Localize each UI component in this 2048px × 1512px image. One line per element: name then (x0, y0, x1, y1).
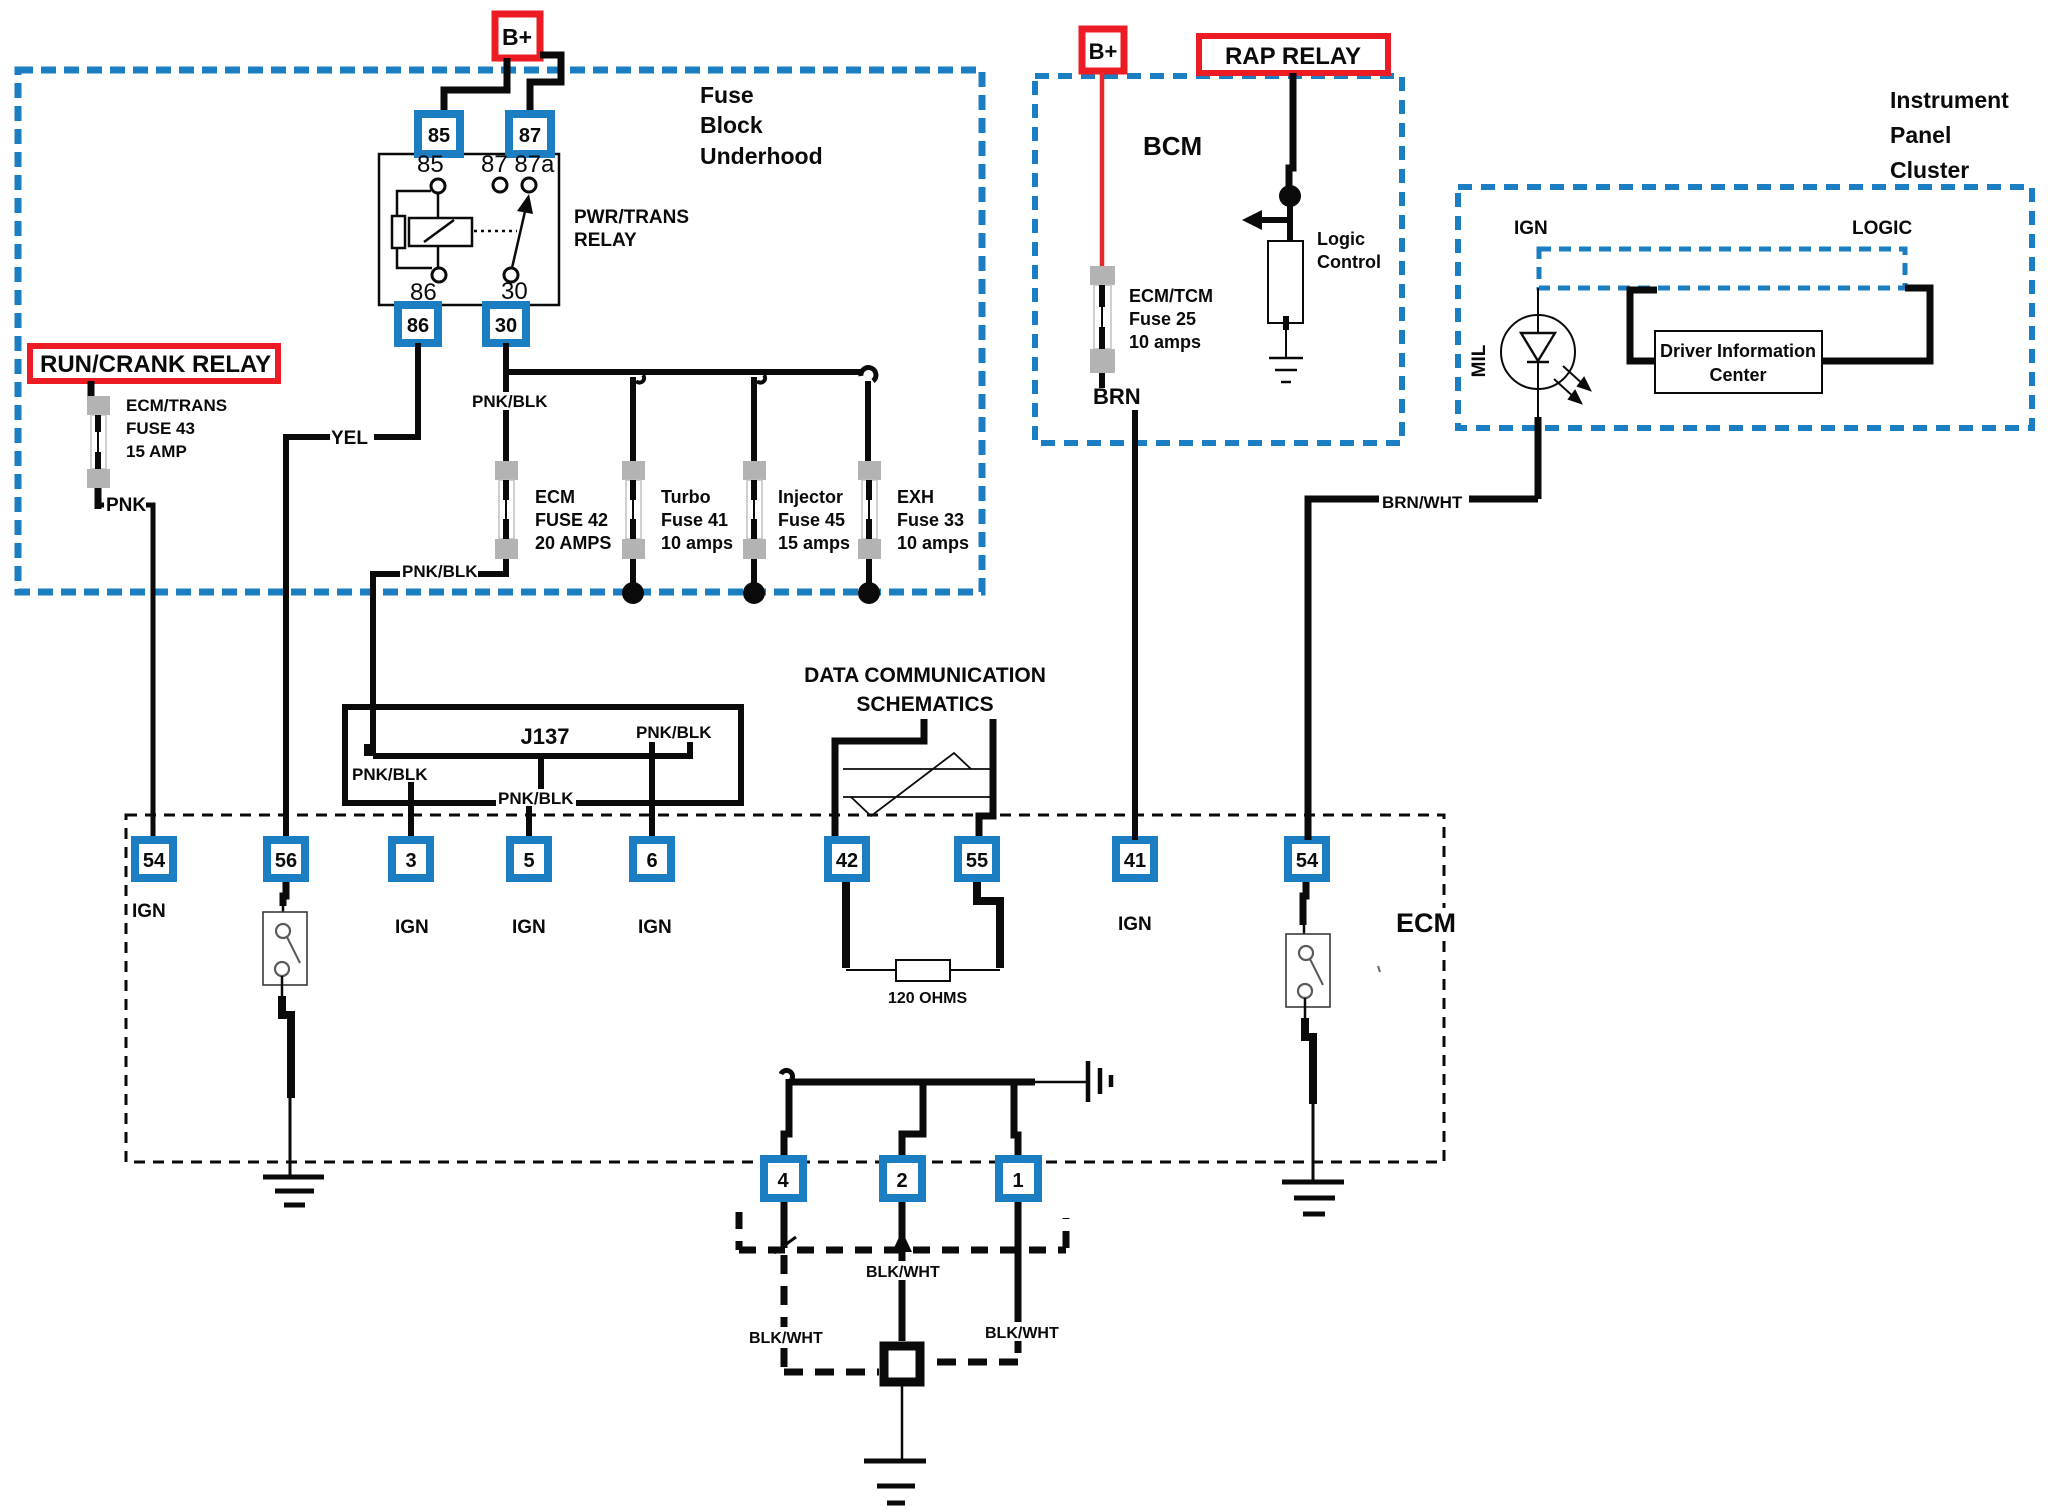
wire pin 2 BLK/WHT (899, 1202, 906, 1341)
svg-text:PNK: PNK (106, 495, 146, 516)
svg-text:IGN: IGN (132, 901, 166, 922)
svg-text:BLK/WHT: BLK/WHT (985, 1325, 1059, 1342)
svg-text:Driver Information: Driver Information (1660, 341, 1816, 361)
wire splice to ground (901, 1386, 904, 1461)
switch S1 (under pin 56) (263, 912, 307, 985)
logic control block (1268, 241, 1303, 323)
svg-text:Fuse 41: Fuse 41 (661, 510, 728, 530)
svg-text:54: 54 (143, 850, 166, 872)
svg-text:B+: B+ (502, 24, 532, 50)
wire BRN/WHT to ECM pin 54 right (1308, 499, 1538, 840)
svg-text:IGN: IGN (638, 917, 672, 938)
wire YEL pin86 to ECM pin 56 (286, 343, 418, 836)
svg-text:2: 2 (896, 1170, 907, 1192)
wire PNK/BLK from pin 30 to fuse F42 (503, 343, 509, 463)
junction dot F45 (743, 582, 765, 604)
ground (below switch S2) (1282, 1182, 1344, 1214)
svg-text:FUSE 42: FUSE 42 (535, 510, 608, 530)
stray tick mark (1378, 966, 1380, 972)
svg-text:5: 5 (523, 850, 534, 872)
pin 56 (267, 840, 305, 878)
svg-text:Fuse: Fuse (700, 82, 754, 108)
svg-text:EXH: EXH (897, 487, 934, 507)
wire J137 to ECM pin 6 (649, 742, 655, 836)
svg-text:YEL: YEL (331, 428, 368, 449)
wire F33 to junction (866, 559, 872, 585)
fuse F43 label (126, 396, 227, 461)
svg-text:Injector: Injector (778, 487, 843, 507)
svg-text:ECM/TRANS: ECM/TRANS (126, 396, 227, 415)
svg-text:86: 86 (407, 315, 429, 337)
svg-text:Center: Center (1709, 365, 1766, 385)
svg-text:41: 41 (1124, 850, 1146, 872)
svg-text:SCHEMATICS: SCHEMATICS (856, 693, 993, 716)
svg-text:4: 4 (777, 1170, 789, 1192)
svg-text:BLK/WHT: BLK/WHT (866, 1264, 940, 1281)
svg-text:ECM/TCM: ECM/TCM (1129, 286, 1213, 306)
wire branch to fuse F41 (630, 377, 636, 463)
splice box G (ground splice) (884, 1346, 920, 1382)
svg-text:Fuse 33: Fuse 33 (897, 510, 964, 530)
svg-text:54: 54 (1296, 850, 1319, 872)
svg-text:MIL: MIL (1469, 344, 1490, 377)
wire YEL label (330, 424, 374, 446)
svg-text:55: 55 (966, 850, 988, 872)
svg-text:42: 42 (836, 850, 858, 872)
DATA COMMUNICATION SCHEMATICS label (804, 664, 1046, 716)
BLK/WHT label (pin 2) (864, 1261, 942, 1281)
svg-text:IGN: IGN (1514, 218, 1548, 239)
Fuse Block Underhood label (700, 82, 823, 169)
svg-text:PNK/BLK: PNK/BLK (472, 392, 548, 411)
BLK/WHT label (pin 4) (747, 1327, 825, 1346)
fuse F33 EXH 10A (858, 461, 881, 559)
RAP RELAY node (1199, 36, 1388, 73)
wire B+ to pin 87 (530, 55, 561, 114)
wire switch S2 to ground (1304, 998, 1307, 1020)
svg-text:Logic: Logic (1317, 229, 1365, 249)
wire MIL to BRN/WHT (1537, 389, 1539, 419)
pin 41 (1116, 840, 1154, 878)
relay internal pin labels (410, 151, 555, 306)
svg-text:Instrument: Instrument (1890, 87, 2009, 113)
svg-text:87 87a: 87 87a (481, 151, 555, 178)
wire B+ to pin 85 (444, 58, 507, 114)
relay armature dotted link (474, 230, 517, 233)
svg-text:RUN/CRANK RELAY: RUN/CRANK RELAY (40, 351, 271, 378)
fuse F42 label (535, 487, 611, 553)
pin 1 (999, 1159, 1038, 1198)
wire data bus to ECM pin 42 (835, 719, 924, 836)
wire PNK label (104, 494, 146, 513)
pin 5 (510, 840, 548, 878)
pin 55 (958, 840, 996, 878)
svg-text:BLK/WHT: BLK/WHT (749, 1330, 823, 1347)
svg-text:ECM: ECM (1396, 908, 1456, 938)
wire PNK/BLK label (J137 bottom) (496, 789, 576, 806)
pin 87 (509, 114, 551, 154)
wire pin 42 to terminating resistor (842, 882, 850, 968)
svg-text:B+: B+ (1089, 39, 1118, 64)
wire B+ to fuse F25 (red) (1100, 71, 1105, 268)
switch S2 lead from pin 54 right (1303, 882, 1306, 925)
pin 86 (398, 305, 438, 343)
wire ground bus to pin 2 (902, 1079, 923, 1159)
wire DIC left to logic bus (1630, 290, 1657, 361)
node B+ (BCM feed) (1082, 29, 1124, 71)
svg-text:ECM: ECM (535, 487, 575, 507)
svg-text:LOGIC: LOGIC (1852, 218, 1912, 239)
svg-text:J137: J137 (521, 724, 570, 749)
svg-text:10 amps: 10 amps (1129, 332, 1201, 352)
RUN/CRANK RELAY node (30, 346, 278, 381)
ECM label (1390, 908, 1462, 938)
lead to chassis ground (right) (1035, 1081, 1086, 1084)
svg-text:IGN: IGN (1118, 914, 1152, 935)
fuse F41 label (661, 487, 733, 553)
arrow output (to left) (1258, 217, 1290, 223)
Instrument Panel Cluster label (1890, 87, 2009, 183)
wire branch to fuse F33 (865, 381, 871, 463)
pin 30 (486, 305, 526, 343)
pin 54 (left) (135, 840, 173, 878)
pin 4 (764, 1159, 803, 1198)
svg-text:6: 6 (646, 850, 657, 872)
wire PNK/BLK from F42 down-left toward J137 (373, 559, 506, 756)
svg-text:PNK/BLK: PNK/BLK (402, 562, 478, 581)
wire pin 55 to terminating resistor (977, 882, 1000, 968)
junction dot F33 (858, 582, 880, 604)
BRN/WHT label (1379, 490, 1469, 512)
fuse F33 label (897, 487, 969, 553)
splice block J137 box (345, 707, 741, 803)
fuse F42 ECM 20A (495, 461, 518, 559)
svg-text:85: 85 (417, 151, 444, 178)
pin 85 (418, 114, 460, 154)
fuse F43 ECM/TRANS 15A (87, 396, 110, 509)
pin 3 (392, 840, 430, 878)
svg-text:10 amps: 10 amps (897, 533, 969, 553)
svg-text:IGN: IGN (512, 917, 546, 938)
fuse F25 ECM/TCM 10A (1090, 266, 1115, 388)
svg-text:56: 56 (275, 850, 297, 872)
svg-text:Panel: Panel (1890, 122, 1951, 148)
wire PNK/BLK label (below F42) (400, 560, 478, 580)
wire data bus to ECM pin 55 (979, 719, 993, 836)
wire J137 to ECM pin 5 (538, 756, 544, 791)
relay K1 PWR/TRANS outline (379, 154, 559, 305)
svg-text:3: 3 (405, 850, 416, 872)
svg-text:DATA COMMUNICATION: DATA COMMUNICATION (804, 664, 1046, 687)
twisted pair symbol (843, 753, 990, 816)
fuse F25 label (1129, 286, 1213, 352)
svg-text:Underhood: Underhood (700, 143, 823, 169)
svg-text:Fuse 45: Fuse 45 (778, 510, 845, 530)
switch S1 lead from pin 56 (283, 882, 286, 906)
chassis ground (rotated) (1088, 1061, 1111, 1102)
ground (logic control) (1269, 358, 1303, 382)
ECM enclosure (dashed) (126, 815, 1444, 1162)
Instrument Panel Cluster enclosure (dashed) (1458, 187, 2032, 428)
wire junction to logic control (1287, 196, 1293, 241)
svg-text:85: 85 (428, 125, 450, 147)
wire F41 to junction (630, 559, 636, 585)
wire RUN/CRANK relay to fuse F43 (88, 381, 95, 398)
ground G101 (bottom) (864, 1461, 926, 1503)
Logic Control label (1317, 229, 1381, 272)
J137 internal bus wire (367, 742, 690, 756)
svg-text:Block: Block (700, 112, 763, 138)
MIL indicator LED (1501, 315, 1575, 389)
svg-text:PNK/BLK: PNK/BLK (352, 765, 428, 784)
junction dot (RAP wire) (1279, 185, 1301, 207)
svg-text:PNK/BLK: PNK/BLK (498, 789, 574, 808)
wire PNK/BLK label (pin 30) (470, 392, 548, 410)
BLK/WHT label (pin 1) (983, 1322, 1061, 1342)
PWR/TRANS RELAY label (574, 207, 689, 251)
ground (below switch S1) (263, 1177, 324, 1205)
svg-text:15 amps: 15 amps (778, 533, 850, 553)
svg-text:Control: Control (1317, 252, 1381, 272)
wire ground bus to pin 4 (784, 1079, 789, 1159)
svg-text:RAP RELAY: RAP RELAY (1225, 43, 1361, 70)
pin 6 (633, 840, 671, 878)
harness sheath dashed outline (739, 1212, 1066, 1250)
svg-text:BRN/WHT: BRN/WHT (1382, 493, 1463, 512)
svg-text:1: 1 (1012, 1170, 1023, 1192)
wire F45 to junction (751, 559, 757, 585)
pin 54 (right) (1288, 840, 1326, 878)
wire DIC right to logic bus (1822, 288, 1930, 361)
wire RAP RELAY to logic control (1289, 73, 1293, 200)
wire BRN to ECM pin 41 (1132, 410, 1138, 840)
svg-text:Turbo: Turbo (661, 487, 711, 507)
switch S2 (under pin 54 right) (1286, 934, 1330, 1007)
svg-text:10 amps: 10 amps (661, 533, 733, 553)
svg-text:Cluster: Cluster (1890, 157, 1969, 183)
wire J137 to ECM pin 3 (408, 782, 414, 836)
junction dot F41 (622, 582, 644, 604)
svg-text:IGN: IGN (395, 917, 429, 938)
terminating resistor 120 ohms (846, 960, 1000, 981)
fuse F45 Injector 15A (743, 461, 766, 559)
Fuse Block Underhood enclosure (18, 70, 982, 592)
LED emission arrows (1554, 366, 1590, 403)
fuse F41 Turbo 10A (622, 461, 645, 559)
ground bus above pins 4/2/1 with end curl (789, 1079, 1035, 1086)
node B+ (battery feed, fuse block) (495, 14, 540, 58)
wire branch to fuse F45 (751, 377, 757, 463)
BCM enclosure (dashed) (1035, 76, 1402, 443)
wire logic control to ground (1283, 316, 1289, 330)
svg-text:FUSE 43: FUSE 43 (126, 419, 195, 438)
pin 42 (828, 840, 866, 878)
svg-text:87: 87 (519, 125, 541, 147)
relay pin terminals (circles) (431, 178, 536, 282)
wire pin 4 BLK/WHT (781, 1202, 788, 1248)
relay switch arm pin30 to 87a (512, 207, 526, 268)
svg-text:120 OHMS: 120 OHMS (888, 990, 967, 1007)
wire switch S1 to ground (281, 976, 284, 998)
svg-text:15 AMP: 15 AMP (126, 442, 187, 461)
Driver Information Center block (1655, 331, 1822, 393)
svg-text:Fuse 25: Fuse 25 (1129, 309, 1196, 329)
relay coil (392, 191, 472, 268)
svg-text:PNK/BLK: PNK/BLK (636, 723, 712, 742)
feed bus to fuses with end curl (506, 369, 861, 375)
fuse F45 label (778, 487, 850, 553)
wire PNK down to ECM pin 54 (98, 505, 153, 836)
svg-text:BRN: BRN (1093, 384, 1141, 409)
wire pin 1 BLK/WHT (1015, 1202, 1022, 1303)
wire IGN bus to MIL (1537, 288, 1539, 333)
svg-text:20 AMPS: 20 AMPS (535, 533, 611, 553)
pin 2 (883, 1159, 922, 1198)
svg-text:BCM: BCM (1143, 131, 1202, 161)
svg-text:30: 30 (495, 315, 517, 337)
svg-text:PWR/TRANS: PWR/TRANS (574, 207, 689, 228)
internal logic bus (dashed) (1539, 249, 1905, 288)
wire ground bus to pin 1 (1014, 1079, 1018, 1159)
svg-text:RELAY: RELAY (574, 230, 637, 251)
